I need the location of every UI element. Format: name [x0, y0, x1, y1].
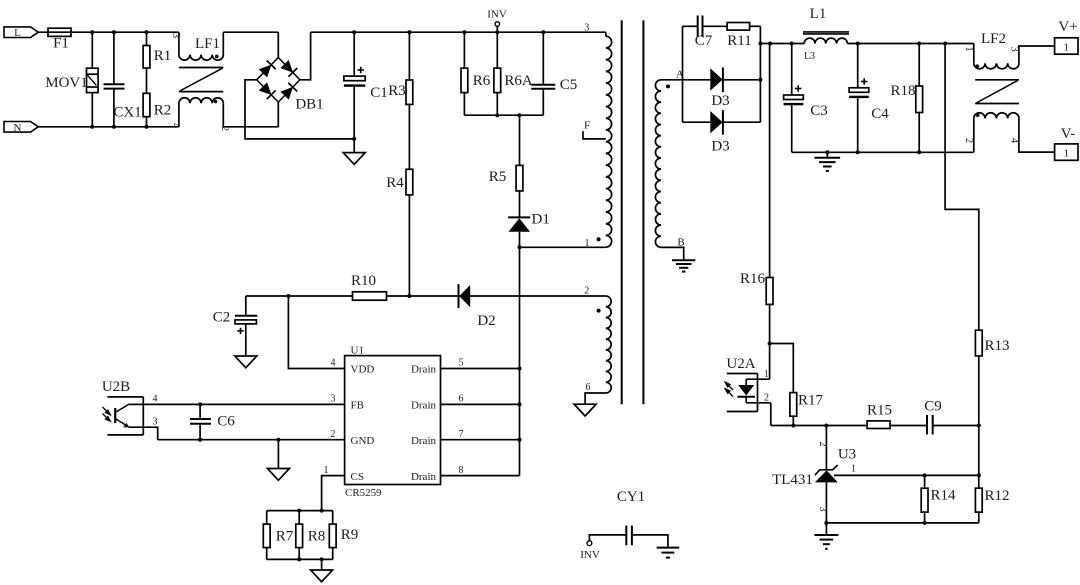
LF1 pin 4 lead — [178, 103, 180, 127]
svg-text:Drain: Drain — [411, 435, 437, 447]
wire bridge AC top — [277, 32, 279, 57]
svg-text:R11: R11 — [727, 33, 751, 49]
resistor R3 — [408, 32, 410, 80]
svg-text:VDD: VDD — [351, 364, 375, 376]
earth ground U3 — [825, 523, 827, 535]
resistor R6A — [496, 32, 498, 68]
D3 block left rail — [682, 26, 684, 122]
wire main top rail — [311, 31, 606, 33]
U2A pin 2 — [746, 402, 771, 404]
wire output bottom rail — [792, 151, 974, 153]
earth ground output — [826, 152, 828, 157]
svg-text:3: 3 — [1009, 47, 1020, 52]
diode D3 upper — [710, 68, 722, 90]
svg-text:3: 3 — [170, 33, 181, 38]
resistor R14 — [924, 475, 926, 488]
fuse F1 — [48, 28, 71, 36]
inductor L1 — [804, 38, 847, 43]
wire output rail after L1 — [847, 43, 973, 45]
resistor R15 — [867, 421, 890, 429]
node INV tap — [495, 22, 500, 27]
svg-text:MOV1: MOV1 — [45, 75, 88, 91]
svg-text:C2: C2 — [213, 310, 231, 326]
svg-text:D3: D3 — [711, 139, 729, 155]
LF2 top winding — [974, 63, 1019, 69]
wire drain rail — [519, 232, 521, 476]
svg-text:R9: R9 — [341, 527, 359, 543]
svg-text:GND: GND — [351, 435, 375, 447]
capacitor C4 — [857, 44, 859, 88]
wire A to D3 rectifier — [661, 79, 710, 81]
wire bridge plus to top rail — [300, 32, 311, 80]
svg-text:R12: R12 — [985, 488, 1010, 504]
resistor R1 — [146, 32, 148, 45]
LF1 bottom winding — [179, 98, 223, 104]
resistor R11 — [727, 23, 750, 31]
svg-text:3: 3 — [331, 394, 336, 405]
wire drain pin6 — [441, 403, 520, 405]
resistor R2 — [143, 93, 150, 116]
svg-text:INV: INV — [487, 9, 507, 21]
D3 block right rail — [759, 26, 761, 122]
transformer secondary winding — [655, 80, 661, 248]
svg-text:U2A: U2A — [726, 356, 755, 372]
svg-text:1: 1 — [963, 47, 974, 52]
wire secondary B to ground — [661, 247, 684, 259]
LF1 pin 2 lead — [222, 103, 224, 127]
capacitor C3 — [791, 44, 793, 96]
ground below C2 — [245, 324, 247, 356]
transformer pin1 wire — [520, 246, 606, 248]
svg-text:Drain: Drain — [411, 400, 437, 412]
primary polarity dot — [597, 237, 601, 241]
svg-text:C9: C9 — [924, 399, 942, 415]
svg-text:B: B — [677, 237, 684, 249]
wire regulator bottom — [826, 522, 978, 524]
resistor R17 — [770, 344, 794, 393]
svg-text:CY1: CY1 — [617, 489, 645, 505]
svg-text:L1: L1 — [810, 6, 827, 22]
transformer F tap — [583, 131, 606, 139]
svg-text:C7: C7 — [695, 33, 713, 49]
U2B pin 3 — [129, 427, 158, 440]
wire LF1 to bridge bottom — [223, 126, 278, 128]
LF2 pin 1 lead — [973, 44, 975, 64]
svg-text:R7: R7 — [276, 529, 294, 545]
LF2 core — [975, 79, 1019, 81]
LF1 core — [179, 67, 223, 69]
svg-text:R16: R16 — [740, 271, 766, 287]
svg-text:R14: R14 — [931, 488, 957, 504]
wire LF1 to bridge top — [222, 32, 224, 54]
resistor R9 — [332, 511, 334, 524]
svg-text:TL431: TL431 — [772, 472, 813, 488]
svg-text:R1: R1 — [154, 48, 172, 64]
svg-text:R4: R4 — [386, 175, 404, 191]
svg-text:INV: INV — [580, 549, 600, 561]
svg-text:6: 6 — [586, 382, 591, 393]
wire R10 to aux winding — [387, 295, 606, 297]
svg-text:4: 4 — [331, 358, 336, 369]
U2A emission arrows — [725, 382, 733, 396]
node junctions input rails — [90, 30, 94, 34]
svg-text:CR5259: CR5259 — [345, 487, 382, 499]
svg-text:C5: C5 — [560, 77, 578, 93]
svg-text:6: 6 — [459, 394, 464, 405]
svg-text:CS: CS — [351, 471, 364, 483]
svg-text:DB1: DB1 — [295, 97, 323, 113]
capacitor C6 — [199, 404, 201, 419]
LF2 pin 4 lead — [1019, 118, 1055, 152]
svg-text:U2B: U2B — [102, 379, 130, 395]
svg-text:R3: R3 — [388, 83, 406, 99]
svg-text:R6: R6 — [473, 73, 491, 89]
resistor R16 — [769, 44, 771, 278]
earth ground CY1 — [657, 547, 680, 549]
capacitor C1 — [353, 32, 355, 76]
svg-text:C3: C3 — [810, 103, 828, 119]
resistor R5 — [519, 115, 521, 165]
svg-text:R15: R15 — [867, 403, 892, 419]
resistor R12 — [975, 488, 982, 512]
svg-text:2: 2 — [584, 286, 589, 297]
ground below C1 — [353, 139, 355, 153]
input terminal N — [4, 122, 38, 133]
svg-text:FB: FB — [351, 400, 364, 412]
svg-text:F: F — [584, 120, 590, 132]
svg-text:4: 4 — [153, 394, 158, 405]
U2B phototransistor — [114, 408, 116, 423]
svg-text:U3: U3 — [838, 447, 856, 463]
U2B pin 4 — [129, 403, 144, 405]
svg-text:D3: D3 — [711, 93, 729, 109]
svg-text:R13: R13 — [985, 338, 1010, 354]
LF1 pin 3 lead — [178, 32, 180, 54]
svg-text:F1: F1 — [53, 36, 69, 52]
svg-text:R10: R10 — [351, 273, 376, 289]
svg-text:3: 3 — [584, 23, 589, 34]
svg-text:Drain: Drain — [411, 364, 437, 376]
diode D2 — [458, 284, 460, 308]
svg-text:CX1: CX1 — [113, 105, 141, 121]
wire output top rail — [760, 43, 804, 45]
wire R13 branch from rail — [945, 44, 979, 331]
resistor R8 — [298, 511, 300, 524]
LF1 phase dot bottom — [214, 100, 218, 104]
transformer core — [621, 20, 623, 404]
svg-text:5: 5 — [459, 358, 464, 369]
svg-text:1: 1 — [851, 464, 856, 475]
svg-text:Drain: Drain — [411, 471, 437, 483]
svg-text:R2: R2 — [154, 103, 172, 119]
svg-text:2: 2 — [764, 393, 769, 404]
capacitor C2 — [245, 296, 247, 315]
wire drain pin5 — [441, 368, 520, 370]
LF2 bottom winding — [974, 113, 1019, 119]
U2A pin 1 — [746, 378, 769, 380]
wire feedback bottom — [771, 425, 867, 427]
varistor MOV1 — [91, 32, 93, 68]
svg-text:8: 8 — [459, 465, 464, 476]
resistor R10 — [246, 295, 353, 297]
wire snubber bottom — [464, 114, 543, 116]
aux polarity dot — [597, 309, 601, 313]
ground below GND line — [277, 440, 279, 469]
svg-text:U1: U1 — [351, 345, 364, 357]
svg-text:4: 4 — [1009, 138, 1020, 143]
resistor R4 — [408, 104, 410, 169]
svg-text:2: 2 — [817, 442, 828, 447]
wire top rail L — [38, 31, 179, 33]
capacitor C5 — [542, 32, 544, 85]
ground below sense network — [321, 559, 323, 570]
svg-text:1: 1 — [764, 369, 769, 380]
LF1 top winding — [179, 55, 223, 61]
LF2 pin 3 lead — [1019, 46, 1055, 63]
wire bottom rail N — [38, 126, 179, 128]
svg-text:V-: V- — [1061, 126, 1075, 142]
secondary polarity dot — [666, 84, 670, 88]
ground below aux winding — [574, 404, 596, 416]
svg-text:1: 1 — [324, 465, 329, 476]
svg-text:N: N — [14, 122, 22, 134]
svg-text:1: 1 — [1064, 148, 1070, 160]
input terminal L — [4, 27, 38, 38]
LF2 phase dot top — [975, 64, 979, 68]
svg-text:3: 3 — [153, 417, 158, 428]
svg-text:2: 2 — [331, 429, 336, 440]
svg-text:L: L — [14, 27, 21, 39]
wire CS to sense resistors — [322, 476, 345, 511]
svg-text:7: 7 — [459, 429, 464, 440]
LF2 phase dot bottom — [976, 113, 980, 117]
svg-text:LF2: LF2 — [981, 31, 1006, 47]
svg-text:3: 3 — [817, 507, 828, 512]
svg-text:2: 2 — [963, 138, 974, 143]
svg-text:V+: V+ — [1058, 19, 1077, 35]
transformer aux pin6 wire — [585, 393, 606, 404]
capacitor CX1 — [113, 32, 115, 84]
sense resistor network top wire — [267, 510, 333, 512]
wire bridge AC bottom — [277, 102, 279, 127]
diode D1 — [508, 216, 530, 218]
svg-text:C4: C4 — [871, 106, 889, 122]
capacitor C9 — [890, 425, 927, 427]
svg-text:D2: D2 — [477, 313, 495, 329]
resistor R13 — [975, 330, 982, 356]
transformer primary winding — [606, 36, 612, 247]
wire drain pin7 — [441, 439, 520, 441]
diode D3 lower — [683, 121, 711, 123]
svg-text:R17: R17 — [798, 393, 824, 409]
earth ground secondary B — [672, 259, 695, 261]
svg-text:C6: C6 — [217, 414, 235, 430]
svg-text:R18: R18 — [890, 83, 915, 99]
svg-text:LF1: LF1 — [195, 36, 220, 52]
svg-text:C1: C1 — [370, 85, 388, 101]
bridge rectifier DB1 — [257, 58, 300, 103]
svg-text:1: 1 — [1064, 42, 1070, 54]
svg-text:R5: R5 — [489, 169, 507, 185]
svg-text:R6A: R6A — [504, 73, 533, 89]
capacitor C7 — [683, 25, 698, 27]
U3 ref wire — [834, 474, 979, 476]
svg-text:R8: R8 — [308, 529, 326, 545]
wire VDD branch — [288, 296, 344, 369]
svg-text:D1: D1 — [532, 212, 550, 228]
resistor R7 — [266, 511, 268, 524]
svg-text:1: 1 — [585, 238, 590, 249]
U3 anode lead — [825, 482, 827, 523]
wire drain pin8 — [441, 475, 520, 477]
svg-text:L3: L3 — [804, 51, 815, 62]
sense network bottom wire — [267, 558, 333, 560]
resistor R18 — [918, 44, 920, 87]
U2B receiving arrows — [103, 407, 111, 421]
resistor R6 — [463, 32, 465, 68]
wire GND line — [158, 439, 345, 441]
LF1 phase dot top — [215, 55, 219, 59]
LF2 pin 2 lead — [973, 118, 975, 152]
wire bridge minus to C1 bottom — [245, 80, 354, 139]
svg-text:4: 4 — [170, 123, 181, 128]
wire FB line — [143, 403, 344, 405]
U2A LED — [745, 379, 747, 385]
